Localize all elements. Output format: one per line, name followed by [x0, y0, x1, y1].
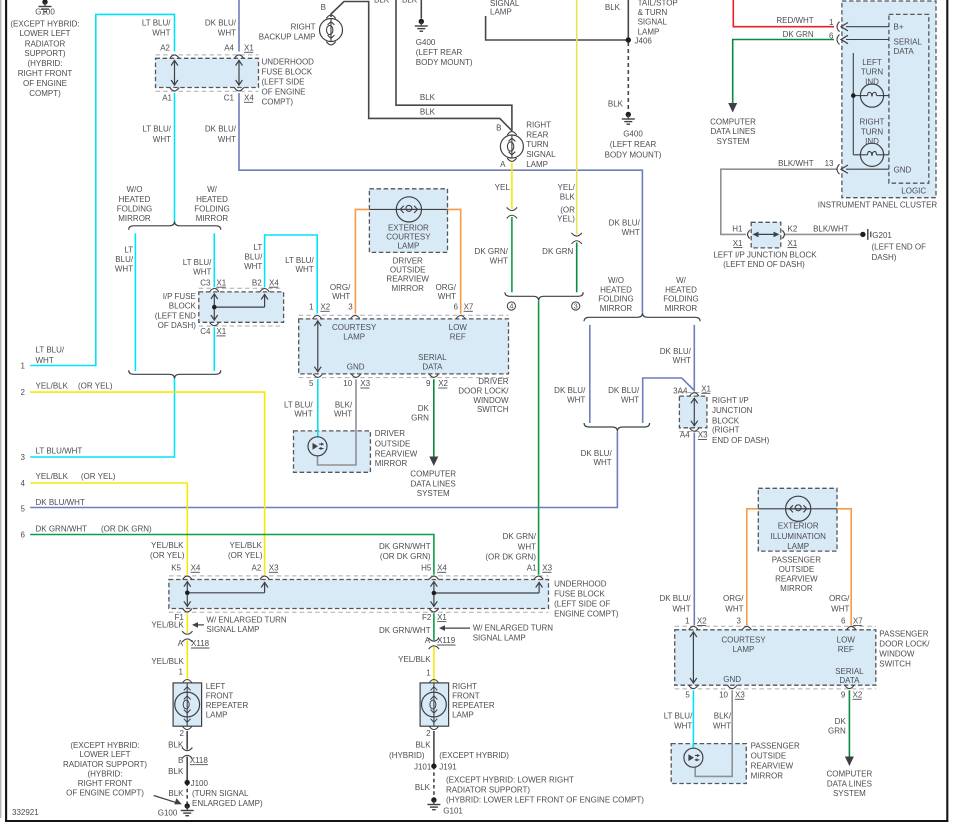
svg-text:I/P FUSE: I/P FUSE: [163, 292, 196, 301]
svg-text:G100: G100: [35, 8, 55, 17]
svg-text:1: 1: [309, 303, 314, 312]
svg-text:5: 5: [309, 379, 314, 388]
svg-text:RIGHT: RIGHT: [860, 118, 885, 127]
svg-text:1: 1: [179, 667, 184, 676]
svg-text:TURN: TURN: [861, 68, 883, 77]
svg-text:BLK: BLK: [560, 192, 576, 201]
svg-text:(LEFT SIDE: (LEFT SIDE: [262, 78, 305, 87]
svg-text:REF: REF: [838, 645, 854, 654]
svg-text:REF: REF: [450, 333, 466, 342]
svg-text:BLK/: BLK/: [714, 711, 732, 720]
svg-text:RIGHT: RIGHT: [452, 682, 477, 691]
svg-text:LAMP: LAMP: [452, 710, 474, 719]
svg-text:3: 3: [737, 617, 742, 626]
svg-text:COMPUTER: COMPUTER: [710, 117, 756, 126]
svg-text:ENLARGED LAMP): ENLARGED LAMP): [192, 799, 263, 808]
svg-text:X4: X4: [269, 278, 279, 287]
svg-text:YEL/BLK: YEL/BLK: [151, 620, 184, 629]
svg-text:6: 6: [21, 531, 26, 540]
svg-text:ORG/: ORG/: [723, 594, 744, 603]
svg-text:FOLDING: FOLDING: [663, 295, 699, 304]
svg-text:A1: A1: [162, 94, 172, 103]
svg-text:G101: G101: [443, 807, 463, 816]
svg-text:FUSE BLOCK: FUSE BLOCK: [262, 68, 313, 77]
svg-text:WHT: WHT: [332, 292, 350, 301]
svg-text:9: 9: [426, 379, 431, 388]
svg-text:(RIGHT: (RIGHT: [712, 426, 740, 435]
svg-text:(LEFT REAR: (LEFT REAR: [416, 48, 463, 57]
svg-text:B: B: [178, 756, 183, 765]
svg-text:EXTERIOR: EXTERIOR: [388, 223, 429, 232]
svg-text:A4: A4: [224, 44, 234, 53]
svg-text:WHT: WHT: [725, 605, 743, 614]
svg-text:1: 1: [685, 617, 690, 626]
svg-text:WHT: WHT: [622, 228, 640, 237]
svg-text:5: 5: [21, 505, 26, 514]
svg-text:ENGINE COMPT): ENGINE COMPT): [554, 609, 619, 618]
svg-text:BLK/: BLK/: [335, 400, 353, 409]
svg-text:WHT: WHT: [713, 721, 731, 730]
svg-text:6: 6: [454, 303, 459, 312]
svg-text:X1: X1: [216, 278, 226, 287]
svg-text:(HYBRID): (HYBRID): [389, 751, 425, 760]
svg-text:(OR DK GRN): (OR DK GRN): [380, 552, 431, 561]
svg-text:WHT: WHT: [334, 410, 352, 419]
svg-text:BLK: BLK: [168, 741, 184, 750]
svg-text:X1: X1: [788, 239, 798, 248]
svg-text:WHT: WHT: [674, 721, 692, 730]
svg-text:3: 3: [574, 304, 578, 311]
svg-text:YEL/BLK: YEL/BLK: [36, 472, 69, 481]
svg-text:BLU/: BLU/: [115, 255, 134, 264]
svg-text:K5: K5: [171, 564, 181, 573]
svg-text:LAMP: LAMP: [733, 645, 755, 654]
svg-text:DK BLU/: DK BLU/: [609, 219, 641, 228]
svg-text:RIGHT FRONT: RIGHT FRONT: [78, 779, 133, 788]
svg-text:B2: B2: [252, 278, 262, 287]
svg-text:6: 6: [829, 32, 834, 41]
svg-text:WHT: WHT: [294, 410, 312, 419]
svg-text:IND: IND: [865, 137, 879, 146]
svg-text:G400: G400: [416, 38, 436, 47]
svg-text:DK GRN: DK GRN: [542, 247, 573, 256]
svg-text:WHT: WHT: [36, 356, 54, 365]
svg-text:LOWER LEFT: LOWER LEFT: [79, 750, 130, 759]
svg-text:DATA: DATA: [894, 47, 915, 56]
svg-text:X3: X3: [735, 691, 745, 700]
svg-text:WINDOW: WINDOW: [879, 650, 915, 659]
svg-text:IND: IND: [865, 77, 879, 86]
svg-text:DRIVER: DRIVER: [478, 377, 508, 386]
svg-text:J191: J191: [439, 762, 457, 771]
svg-text:OF DASH): OF DASH): [158, 321, 197, 330]
svg-text:BLK: BLK: [420, 93, 436, 102]
svg-text:RADIATOR: RADIATOR: [25, 40, 66, 49]
svg-text:3: 3: [21, 453, 26, 462]
svg-text:WHT: WHT: [115, 265, 133, 274]
svg-text:RIGHT: RIGHT: [291, 23, 316, 32]
svg-text:YEL/BLK: YEL/BLK: [151, 541, 184, 550]
svg-text:332921: 332921: [12, 808, 39, 817]
svg-text:HEATED: HEATED: [119, 195, 151, 204]
svg-text:DK GRN/: DK GRN/: [475, 247, 509, 256]
svg-text:(TURN SIGNAL: (TURN SIGNAL: [192, 789, 249, 798]
svg-text:LT: LT: [254, 243, 263, 252]
svg-text:SIGNAL LAMP: SIGNAL LAMP: [206, 625, 259, 634]
svg-text:YEL/BLK: YEL/BLK: [36, 382, 69, 391]
svg-text:(EXCEPT HYBRID:: (EXCEPT HYBRID:: [10, 19, 79, 28]
svg-text:X1: X1: [437, 613, 447, 622]
svg-text:LT BLU/WHT: LT BLU/WHT: [36, 447, 83, 456]
svg-text:SWITCH: SWITCH: [477, 405, 509, 414]
svg-text:ILLUMINATION: ILLUMINATION: [770, 532, 826, 541]
svg-text:LT BLU/: LT BLU/: [664, 711, 693, 720]
svg-text:SIGNAL LAMP: SIGNAL LAMP: [473, 634, 526, 643]
svg-text:YEL/BLK: YEL/BLK: [398, 655, 431, 664]
svg-text:DOOR LOCK/: DOOR LOCK/: [458, 387, 509, 396]
svg-text:BLK: BLK: [168, 789, 184, 798]
svg-text:RIGHT: RIGHT: [526, 121, 551, 130]
svg-text:BLK/WHT: BLK/WHT: [778, 159, 814, 168]
svg-text:1: 1: [829, 18, 834, 27]
svg-text:JUNCTION: JUNCTION: [712, 406, 753, 415]
svg-text:OF ENGINE: OF ENGINE: [262, 88, 306, 97]
svg-text:3: 3: [348, 303, 353, 312]
svg-text:OF ENGINE: OF ENGINE: [23, 79, 67, 88]
svg-text:DATA LINES: DATA LINES: [710, 127, 755, 136]
svg-text:13: 13: [825, 159, 834, 168]
svg-text:BLK: BLK: [415, 783, 431, 792]
svg-text:LT BLU/: LT BLU/: [183, 258, 212, 267]
svg-text:4: 4: [21, 479, 26, 488]
svg-text:YEL/BLK: YEL/BLK: [151, 657, 184, 666]
svg-text:WHT: WHT: [218, 135, 236, 144]
svg-text:COMPUTER: COMPUTER: [827, 770, 873, 779]
svg-text:1: 1: [21, 362, 26, 371]
svg-text:(LEFT END: (LEFT END: [155, 311, 196, 320]
svg-text:BLU/: BLU/: [245, 253, 264, 262]
svg-text:C1: C1: [224, 94, 235, 103]
svg-text:SIGNAL: SIGNAL: [526, 150, 556, 159]
svg-text:REPEATER: REPEATER: [206, 701, 249, 710]
svg-text:BODY MOUNT): BODY MOUNT): [605, 150, 662, 159]
svg-text:LEFT: LEFT: [206, 682, 226, 691]
svg-text:END OF DASH): END OF DASH): [712, 436, 770, 445]
svg-text:SWITCH: SWITCH: [879, 659, 911, 668]
svg-text:LEFT I/P JUNCTION BLOCK: LEFT I/P JUNCTION BLOCK: [713, 250, 817, 259]
svg-text:X4: X4: [244, 94, 254, 103]
svg-text:YEL): YEL): [557, 214, 575, 223]
svg-text:TAIL/STOP: TAIL/STOP: [638, 0, 678, 8]
svg-text:(HYBRID:: (HYBRID:: [27, 59, 62, 68]
svg-text:DRIVER: DRIVER: [393, 256, 423, 265]
svg-text:COURTESY: COURTESY: [721, 635, 766, 644]
svg-text:REARVIEW: REARVIEW: [775, 574, 818, 583]
svg-text:WHT: WHT: [593, 458, 611, 467]
svg-text:BLK: BLK: [605, 3, 621, 12]
svg-text:LAMP: LAMP: [787, 542, 809, 551]
svg-text:MIRROR: MIRROR: [600, 304, 633, 313]
svg-text:X118: X118: [191, 639, 210, 648]
svg-text:W/ ENLARGED TURN: W/ ENLARGED TURN: [473, 624, 554, 633]
svg-text:G201: G201: [872, 231, 892, 240]
svg-text:PASSENGER: PASSENGER: [879, 629, 928, 638]
svg-text:ORG/: ORG/: [829, 594, 850, 603]
svg-text:SUPPORT): SUPPORT): [24, 49, 66, 58]
svg-text:F2: F2: [422, 613, 432, 622]
svg-text:FOLDING: FOLDING: [117, 205, 153, 214]
svg-text:LT: LT: [124, 246, 133, 255]
svg-text:2: 2: [180, 729, 185, 738]
svg-text:EXTERIOR: EXTERIOR: [778, 522, 819, 531]
svg-text:H5: H5: [421, 564, 432, 573]
svg-text:SERIAL: SERIAL: [835, 667, 864, 676]
svg-text:HEATED: HEATED: [196, 195, 228, 204]
svg-text:A2: A2: [252, 564, 262, 573]
svg-text:MIRROR: MIRROR: [665, 304, 698, 313]
svg-text:LEFT: LEFT: [862, 58, 882, 67]
svg-text:LAMP: LAMP: [206, 710, 228, 719]
svg-text:A: A: [178, 639, 184, 648]
svg-text:BLOCK: BLOCK: [169, 302, 197, 311]
svg-text:YEL/: YEL/: [558, 183, 576, 192]
svg-text:ORG/: ORG/: [436, 283, 457, 292]
svg-text:J101: J101: [414, 762, 432, 771]
svg-text:WHT: WHT: [490, 256, 508, 265]
svg-text:X2: X2: [320, 303, 330, 312]
svg-text:(OR YEL): (OR YEL): [78, 382, 113, 391]
svg-text:X3: X3: [360, 379, 370, 388]
svg-text:DK GRN/WHT: DK GRN/WHT: [379, 542, 431, 551]
svg-text:X4: X4: [437, 564, 447, 573]
svg-text:MIRROR: MIRROR: [375, 459, 408, 468]
svg-text:COMPT): COMPT): [262, 98, 294, 107]
svg-text:WHT: WHT: [295, 265, 313, 274]
svg-text:A: A: [425, 636, 431, 645]
svg-text:REARVIEW: REARVIEW: [751, 762, 794, 771]
svg-text:2: 2: [426, 729, 431, 738]
svg-text:(OR YEL): (OR YEL): [150, 551, 185, 560]
svg-text:FRONT: FRONT: [206, 692, 234, 701]
svg-text:X3: X3: [698, 431, 708, 440]
svg-text:LAMP: LAMP: [490, 7, 512, 16]
svg-text:BLK/WHT: BLK/WHT: [813, 225, 849, 234]
svg-text:C3: C3: [200, 278, 211, 287]
svg-text:TURN: TURN: [526, 140, 548, 149]
svg-text:(LEFT SIDE OF: (LEFT SIDE OF: [554, 599, 610, 608]
svg-text:BLK: BLK: [415, 740, 431, 749]
svg-text:6: 6: [841, 617, 846, 626]
svg-text:DATA: DATA: [422, 363, 443, 372]
svg-text:(OR YEL): (OR YEL): [228, 551, 263, 560]
svg-text:DATA LINES: DATA LINES: [827, 780, 872, 789]
svg-text:SYSTEM: SYSTEM: [417, 489, 450, 498]
svg-text:PASSENGER: PASSENGER: [751, 742, 800, 751]
svg-text:B: B: [496, 124, 501, 133]
svg-text:RADIATOR SUPPORT): RADIATOR SUPPORT): [446, 785, 530, 794]
svg-text:X7: X7: [853, 617, 863, 626]
svg-text:W/O: W/O: [127, 185, 143, 194]
svg-text:OUTSIDE: OUTSIDE: [779, 565, 815, 574]
svg-text:WHT: WHT: [193, 267, 211, 276]
svg-text:DK GRN/WHT: DK GRN/WHT: [36, 525, 88, 534]
svg-text:DK BLU/: DK BLU/: [205, 125, 237, 134]
svg-text:LOW: LOW: [449, 323, 468, 332]
svg-text:X1: X1: [244, 44, 254, 53]
svg-text:SYSTEM: SYSTEM: [833, 789, 866, 798]
svg-text:DK BLU/WHT: DK BLU/WHT: [36, 498, 85, 507]
svg-text:4: 4: [509, 304, 513, 311]
svg-text:K2: K2: [788, 225, 798, 234]
svg-text:X118: X118: [190, 756, 209, 765]
svg-text:MIRROR: MIRROR: [391, 284, 424, 293]
svg-text:OUTSIDE: OUTSIDE: [375, 439, 411, 448]
svg-text:SIGNAL: SIGNAL: [638, 18, 668, 27]
svg-text:2: 2: [21, 388, 26, 397]
svg-text:BLK: BLK: [374, 0, 390, 5]
svg-text:WHT: WHT: [831, 605, 849, 614]
svg-text:DRIVER: DRIVER: [375, 429, 405, 438]
svg-text:DK BLU/: DK BLU/: [660, 347, 692, 356]
svg-text:WHT: WHT: [244, 262, 262, 271]
svg-text:RED/WHT: RED/WHT: [776, 16, 813, 25]
svg-text:BLK: BLK: [168, 767, 184, 776]
svg-text:DASH): DASH): [872, 253, 897, 262]
svg-text:W/: W/: [676, 276, 687, 285]
svg-text:PASSENGER: PASSENGER: [772, 555, 821, 564]
svg-text:LAMP: LAMP: [398, 242, 420, 251]
svg-text:OF ENGINE COMPT): OF ENGINE COMPT): [66, 788, 144, 797]
svg-text:LT BLU/: LT BLU/: [284, 400, 313, 409]
svg-text:OUTSIDE: OUTSIDE: [390, 266, 426, 275]
svg-text:LAMP: LAMP: [343, 333, 365, 342]
svg-text:COURTESY: COURTESY: [332, 323, 377, 332]
svg-text:X3: X3: [542, 564, 552, 573]
svg-text:WHT: WHT: [153, 135, 171, 144]
svg-text:RIGHT I/P: RIGHT I/P: [712, 396, 749, 405]
svg-text:WHT: WHT: [673, 356, 691, 365]
svg-text:H1: H1: [732, 225, 743, 234]
svg-text:DK BLU/: DK BLU/: [659, 594, 691, 603]
svg-text:(LEFT END OF: (LEFT END OF: [872, 243, 927, 252]
svg-text:OUTSIDE: OUTSIDE: [751, 752, 787, 761]
svg-text:X2: X2: [438, 379, 448, 388]
svg-text:DATA: DATA: [839, 676, 860, 685]
svg-text:INSTRUMENT PANEL CLUSTER: INSTRUMENT PANEL CLUSTER: [818, 200, 938, 209]
svg-text:J406: J406: [635, 36, 653, 45]
svg-text:(LEFT END OF DASH): (LEFT END OF DASH): [723, 260, 805, 269]
svg-text:REAR: REAR: [526, 130, 548, 139]
svg-text:REARVIEW: REARVIEW: [386, 274, 429, 283]
svg-text:LOGIC: LOGIC: [901, 186, 926, 195]
svg-text:HEATED: HEATED: [600, 286, 632, 295]
svg-text:5: 5: [685, 691, 690, 700]
svg-text:X2: X2: [853, 691, 863, 700]
svg-text:DK GRN: DK GRN: [783, 30, 814, 39]
svg-text:DK: DK: [835, 717, 847, 726]
svg-text:LOWER LEFT: LOWER LEFT: [19, 29, 70, 38]
svg-text:WINDOW: WINDOW: [473, 396, 509, 405]
svg-text:X1: X1: [701, 385, 711, 394]
svg-text:X1: X1: [733, 239, 743, 248]
svg-text:MIRROR: MIRROR: [780, 584, 813, 593]
svg-text:GND: GND: [894, 165, 912, 174]
svg-text:WHT: WHT: [152, 28, 170, 37]
svg-text:REPEATER: REPEATER: [452, 701, 495, 710]
svg-text:BLK: BLK: [402, 0, 418, 5]
svg-text:YEL/BLK: YEL/BLK: [230, 541, 263, 550]
svg-text:10: 10: [719, 691, 728, 700]
svg-text:(LEFT REAR: (LEFT REAR: [610, 140, 657, 149]
svg-text:1: 1: [426, 669, 431, 678]
svg-text:MIRROR: MIRROR: [196, 214, 229, 223]
svg-text:RIGHT FRONT: RIGHT FRONT: [18, 69, 73, 78]
svg-text:X4: X4: [191, 564, 201, 573]
svg-text:(EXCEPT HYBRID:: (EXCEPT HYBRID:: [70, 741, 139, 750]
svg-text:TURN: TURN: [861, 127, 883, 136]
svg-text:MIRROR: MIRROR: [751, 771, 784, 780]
svg-text:LT BLU/: LT BLU/: [142, 125, 171, 134]
svg-text:C4: C4: [200, 327, 211, 336]
svg-text:10: 10: [343, 379, 352, 388]
svg-text:WHT: WHT: [218, 28, 236, 37]
svg-text:W/: W/: [207, 185, 218, 194]
svg-text:DK GRN/: DK GRN/: [503, 532, 537, 541]
svg-text:WHT: WHT: [672, 605, 690, 614]
svg-text:SYSTEM: SYSTEM: [717, 137, 750, 146]
svg-text:B+: B+: [894, 23, 904, 32]
svg-text:REARVIEW: REARVIEW: [375, 450, 418, 459]
svg-text:BACKUP LAMP: BACKUP LAMP: [259, 33, 316, 42]
svg-text:A4: A4: [680, 431, 690, 440]
svg-text:3A4: 3A4: [673, 386, 688, 395]
svg-text:X119: X119: [437, 636, 456, 645]
svg-text:DK BLU/: DK BLU/: [554, 386, 586, 395]
svg-text:X3: X3: [269, 564, 279, 573]
svg-text:FUSE BLOCK: FUSE BLOCK: [554, 589, 605, 598]
svg-text:J100: J100: [191, 779, 209, 788]
svg-text:DOOR LOCK/: DOOR LOCK/: [879, 640, 930, 649]
svg-text:(HYBRID: LOWER LEFT FRONT OF E: (HYBRID: LOWER LEFT FRONT OF ENGINE COMP…: [446, 796, 644, 805]
svg-text:ORG/: ORG/: [330, 283, 351, 292]
svg-text:GND: GND: [723, 675, 741, 684]
svg-text:FOLDING: FOLDING: [598, 295, 634, 304]
svg-text:DK BLU/: DK BLU/: [581, 449, 613, 458]
svg-text:RADIATOR SUPPORT): RADIATOR SUPPORT): [63, 760, 147, 769]
svg-text:DK GRN/WHT: DK GRN/WHT: [379, 626, 431, 635]
svg-text:HEATED: HEATED: [665, 286, 697, 295]
svg-text:BODY MOUNT): BODY MOUNT): [416, 58, 473, 67]
svg-text:G400: G400: [623, 130, 643, 139]
svg-text:LOW: LOW: [837, 635, 856, 644]
svg-text:WHT: WHT: [438, 292, 456, 301]
svg-text:LT BLU/: LT BLU/: [285, 256, 314, 265]
svg-text:GRN: GRN: [411, 413, 429, 422]
svg-text:A: A: [500, 160, 506, 169]
svg-text:DK BLU/: DK BLU/: [205, 18, 237, 27]
svg-text:COMPT): COMPT): [29, 89, 61, 98]
svg-text:BLK: BLK: [420, 107, 436, 116]
svg-text:LT BLU/: LT BLU/: [36, 346, 65, 355]
svg-text:SERIAL: SERIAL: [418, 353, 447, 362]
svg-text:W/O: W/O: [608, 276, 624, 285]
svg-text:(OR YEL): (OR YEL): [81, 472, 116, 481]
svg-text:W/ ENLARGED TURN: W/ ENLARGED TURN: [206, 616, 287, 625]
svg-text:WHT: WHT: [518, 542, 536, 551]
svg-text:LT BLU/: LT BLU/: [142, 18, 171, 27]
svg-text:UNDERHOOD: UNDERHOOD: [262, 58, 315, 67]
svg-text:LAMP: LAMP: [638, 27, 660, 36]
